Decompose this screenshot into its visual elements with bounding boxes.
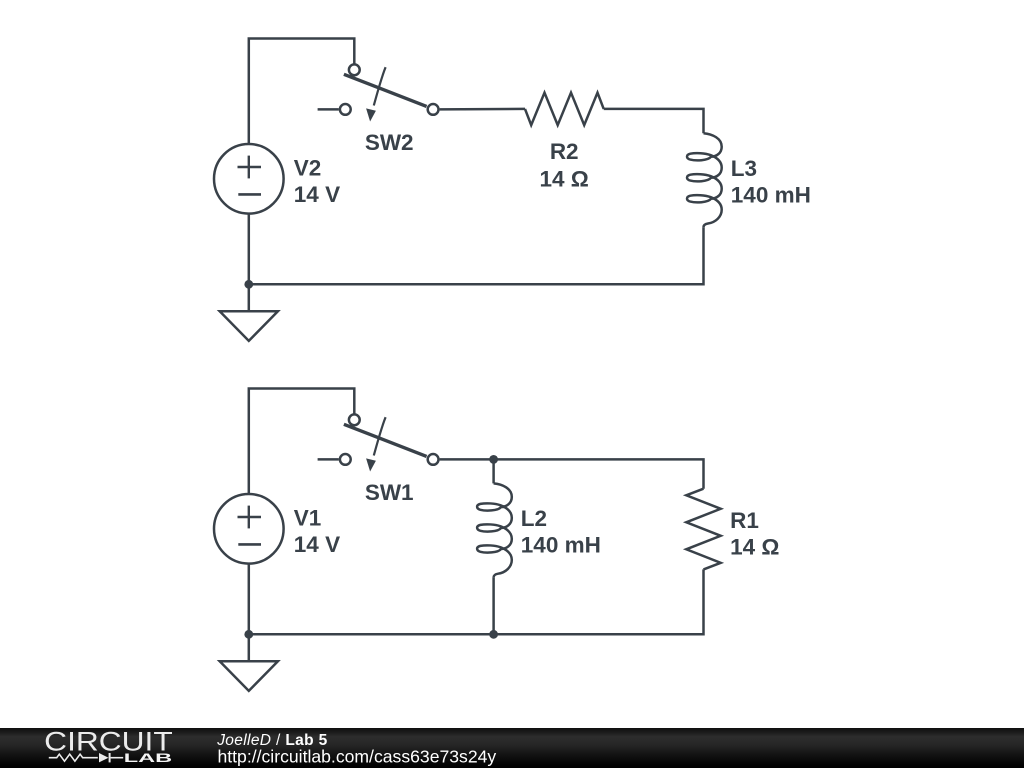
svg-text:14 V: 14 V — [294, 182, 340, 207]
logo resistor zigzag — [49, 754, 98, 761]
svg-text:L3: L3 — [731, 156, 757, 181]
svg-text:14 V: 14 V — [294, 532, 340, 557]
wire SW1 to R1 top corner — [440, 459, 704, 488]
resistor R2 — [525, 93, 604, 125]
wire V1 bottom to ground node — [248, 564, 251, 662]
wire L2 bottom stub — [492, 577, 495, 634]
svg-text:140 mH: 140 mH — [521, 532, 601, 557]
footer bar — [0, 728, 1024, 768]
svg-text:R1: R1 — [730, 508, 759, 533]
wire R2 to L3 top corner — [604, 109, 704, 133]
svg-text:L2: L2 — [521, 506, 547, 531]
svg-text:LAB: LAB — [124, 751, 172, 765]
svg-text:SW1: SW1 — [365, 480, 414, 505]
svg-text:14 Ω: 14 Ω — [540, 166, 589, 191]
label L2 value — [521, 506, 601, 557]
svg-text:V1: V1 — [294, 505, 322, 530]
junction node circuit 2 ground — [244, 280, 253, 289]
logo diode — [99, 753, 109, 762]
label R1 value — [730, 508, 779, 560]
voltage source V1 — [214, 494, 284, 564]
wire top-left loop of circuit 2 (V2 top to SW2 pivot) — [249, 39, 354, 145]
resistor R1 — [686, 489, 720, 570]
svg-text:V2: V2 — [294, 155, 322, 180]
svg-text:SW2: SW2 — [365, 130, 414, 155]
ground symbol circuit 1 — [220, 661, 278, 691]
svg-text:140 mH: 140 mH — [731, 182, 811, 207]
wire L2 top stub — [492, 459, 495, 483]
svg-text:R2: R2 — [550, 139, 579, 164]
inductor L3 — [687, 133, 722, 227]
wire SW2 to R2 — [440, 108, 525, 111]
label V1 value — [294, 505, 340, 557]
wire L3 bottom to ground net — [249, 227, 704, 284]
label V2 value — [294, 155, 340, 207]
switch SW1 — [318, 414, 439, 471]
svg-text:http://circuitlab.com/cass63e7: http://circuitlab.com/cass63e73s24y — [218, 747, 497, 767]
ground symbol circuit 2 — [220, 311, 278, 341]
wire top-left loop of circuit 1 (V1 top to SW1 pivot) — [249, 389, 354, 495]
label L3 value — [731, 156, 811, 207]
junction node circuit 1 ground — [244, 630, 253, 639]
junction node L2 top — [489, 455, 498, 464]
junction node L2 bottom — [489, 630, 498, 639]
svg-text:14 Ω: 14 Ω — [730, 535, 779, 560]
switch SW2 — [318, 64, 439, 121]
inductor L2 — [477, 483, 512, 577]
wire V2 bottom to ground node — [248, 214, 251, 312]
wire R1 bottom to ground net — [249, 569, 704, 634]
label R2 value — [540, 139, 589, 191]
voltage source V2 — [214, 144, 284, 214]
